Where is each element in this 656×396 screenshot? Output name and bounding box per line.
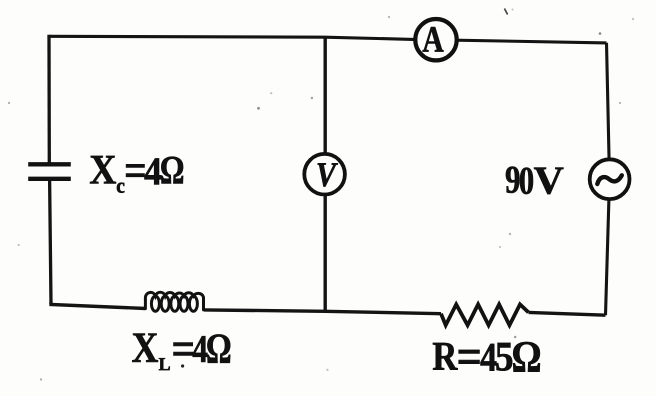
wire: bottom middle segment (inductor to resistor) <box>204 310 441 314</box>
wire: bottom left segment (corner to inductor) <box>51 303 146 309</box>
wire: bottom right segment (resistor to bottom-right corner) <box>529 312 606 315</box>
wire: right vertical (top-right corner through source to bottom-right corner) <box>606 43 610 315</box>
voltmeter letter V <box>318 163 338 186</box>
wire: left vertical lower (capacitor bottom plate to bottom-left corner) <box>50 179 51 304</box>
resistor R zigzag <box>441 304 529 325</box>
stray dot after XL label <box>181 364 184 367</box>
voltmeter V circle <box>304 154 345 195</box>
wire: middle vertical (top junction through voltmeter to bottom junction) <box>324 37 327 312</box>
wire: top horizontal from top-left corner to top-right corner <box>49 36 607 43</box>
ammeter A circle <box>415 19 456 60</box>
AC source tilde <box>597 175 622 184</box>
AC source circle <box>590 159 630 199</box>
capacitor Xc plates <box>28 164 71 179</box>
wire: left vertical upper (corner down to capacitor top plate) <box>47 35 51 164</box>
label Xc=4ohm <box>90 156 183 193</box>
ammeter letter A <box>423 27 444 52</box>
inductor XL coil <box>145 292 203 311</box>
label 90V <box>506 167 564 195</box>
label R=45ohm <box>433 342 540 372</box>
label XL=4ohm <box>132 334 230 371</box>
